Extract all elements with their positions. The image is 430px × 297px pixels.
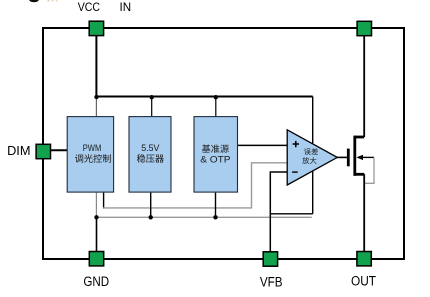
transistor Q1 body arrow <box>360 156 375 158</box>
svg-text:VFB: VFB <box>260 275 283 291</box>
transistor Q1 source stub <box>355 173 365 176</box>
wire reference block bottom stub <box>215 193 217 218</box>
pin pad VCC <box>89 21 103 35</box>
wire top supply bus <box>96 96 312 98</box>
junction dot bus over reference block <box>214 95 218 99</box>
transistor Q1 drain stub <box>355 136 365 139</box>
svg-text:5.5V: 5.5V <box>141 143 160 154</box>
pin pad OUT <box>357 252 371 266</box>
wire DIM pin to PWM block <box>51 149 67 151</box>
svg-text:PWM: PWM <box>83 143 102 154</box>
wire op-amp output to MOSFET gate <box>337 156 347 158</box>
pin pad GND <box>89 252 103 266</box>
wire drain to IN pin <box>363 36 365 137</box>
svg-text:VCC: VCC <box>78 0 101 14</box>
wire body tie to source (gray) <box>364 157 374 183</box>
svg-text:OUT: OUT <box>351 274 376 290</box>
text "调光控制" <box>75 154 111 162</box>
junction dot reference stub on ground bus <box>213 215 217 219</box>
wire source to OUT pin <box>363 174 365 252</box>
text "稳压器" <box>137 154 164 163</box>
wire horizontal from right vertical to VFB riser <box>270 213 312 215</box>
junction dot VCC riser on bus <box>94 95 98 99</box>
op-amp plus input symbol <box>293 141 299 147</box>
block U1 PWM dimming control <box>67 117 113 193</box>
op-amp U4 error amplifier triangle <box>287 130 337 185</box>
svg-text:IN: IN <box>120 0 132 14</box>
svg-text:GND: GND <box>83 274 109 290</box>
wire VFB riser and minus input <box>270 172 287 252</box>
pin pad VFB <box>263 252 277 266</box>
transistor Q1 gate bar <box>347 149 350 167</box>
wire reference block to plus input <box>238 144 287 146</box>
text "误差" <box>304 148 318 155</box>
pin pad IN (top right) <box>357 21 371 35</box>
wire stub bus to reference block top <box>215 97 217 116</box>
wire 5.5V block bottom stub <box>150 193 152 218</box>
block U3 reference and OTP <box>194 117 238 193</box>
wire upper gray bus PWM to op-amp <box>103 163 287 208</box>
pin pad DIM <box>36 144 50 158</box>
svg-text:& OTP: & OTP <box>200 154 230 165</box>
op-amp minus input symbol <box>292 171 298 173</box>
text "基准源" <box>202 144 229 152</box>
IC outline border <box>43 28 404 259</box>
wire VCC riser from VCC pin to top supply bus <box>95 36 97 97</box>
wire stub bus to PWM block top <box>95 97 97 117</box>
svg-text:DIM: DIM <box>7 144 30 158</box>
wire PWM bottom gray stub to GND node <box>95 193 97 218</box>
wire GND pin riser <box>96 217 98 252</box>
cropped text fragment top edge <box>29 0 38 2</box>
transistor Q1 channel bar <box>353 136 356 176</box>
wire PWM bottom black stub <box>103 193 105 209</box>
junction dot 5.5V stub on ground bus <box>149 215 153 219</box>
junction dot GND node <box>94 215 98 219</box>
block U2 5.5V regulator <box>129 117 171 193</box>
text "放大" <box>302 157 316 164</box>
wire lower gray ground bus <box>97 216 312 218</box>
wire stub bus to 5.5V block top <box>151 97 153 116</box>
junction dot bus over 5.5V block <box>150 95 154 99</box>
wire right vertical from bus down behind op-amp <box>312 97 314 214</box>
